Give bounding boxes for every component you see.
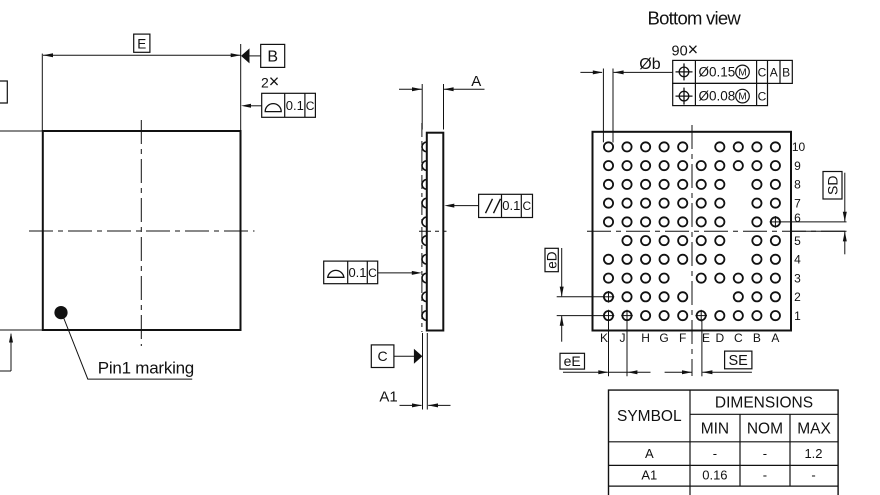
svg-text:A: A [471,73,481,90]
cut-off datum box at left edge [0,81,7,103]
svg-text:B: B [267,49,278,66]
pin1 marking leader [64,318,193,380]
parallelism tolerance frame [479,194,533,217]
parallelism arrow [444,204,478,208]
svg-text:E: E [702,331,710,345]
svg-text:Ø0.15: Ø0.15 [699,64,736,79]
svg-text:90×: 90× [672,40,699,60]
svg-text:C: C [758,90,767,104]
svg-text:0.1: 0.1 [348,265,366,280]
dimension E left arrowhead [43,53,53,57]
parallelism symbol // [486,199,501,213]
ball diameter dim line right / leader to frame [614,70,673,74]
svg-text:A: A [770,65,778,79]
top view vertical centerline [140,120,142,346]
svg-text:SD: SD [824,175,840,194]
table row line under header [609,441,839,443]
ball row 10 [604,142,613,151]
svg-text:Ø0.08: Ø0.08 [699,89,736,104]
dimension A1 seating plane extension [422,333,424,410]
svg-text:MIN: MIN [701,420,729,437]
svg-text:-: - [811,468,815,483]
svg-text:0.1: 0.1 [502,198,520,213]
M modifier row1 [736,65,750,79]
svg-text:1.2: 1.2 [804,446,822,461]
svg-text:Pin1 marking: Pin1 marking [98,359,194,378]
eD label box [545,248,558,271]
cut-off line to bottom-left corner [0,329,43,331]
dimension A1 left line+arrow [400,403,423,407]
dimension A1 right line+arrow [428,403,451,407]
ball diameter dim line left [580,70,602,74]
eE dim middle line [609,371,628,373]
svg-text:F: F [679,331,686,345]
side view package body outline [427,133,444,331]
table row line under A [609,464,839,466]
ball row 9 [604,161,613,170]
datum C leader [394,355,415,357]
svg-text:NOM: NOM [747,420,783,437]
eD dim lower line+arrow [560,316,564,342]
datum C box [371,345,394,368]
profile symbol (side view) [328,270,344,277]
eE label box [560,353,585,369]
svg-text:0.1: 0.1 [286,98,304,113]
position tolerance frame row2 [673,83,768,105]
datum B leader [250,55,261,57]
position tolerance frame row1 [673,60,793,83]
SD label box [823,172,842,200]
svg-text:-: - [763,446,767,461]
svg-text:Bottom view: Bottom view [648,7,742,28]
side view horizontal centerline [419,230,447,232]
top view package body outline [43,131,241,330]
side view solder balls (arcs) [422,142,427,152]
profile tolerance frame (top view) [262,93,316,117]
ball row 6 [604,217,613,226]
svg-text:9: 9 [794,159,801,173]
svg-text:J: J [620,331,626,345]
M modifier row2 [736,89,750,103]
table outer border [609,390,839,495]
dimension A right extension line [443,84,445,130]
SD dim upper line+arrow [843,173,847,222]
svg-text:eD: eD [544,251,559,269]
svg-text:C: C [758,65,767,79]
dimension E line [43,54,241,56]
datum B triangle [241,48,250,63]
dimension A1 body plane extension [426,333,428,410]
position symbol row2 [676,88,693,105]
ball row 3 [604,274,613,283]
svg-text:SE: SE [729,353,749,369]
datum C triangle [414,349,423,364]
svg-text:M: M [738,68,746,79]
SD dim lower line+arrow [843,231,847,254]
svg-text:10: 10 [792,140,806,154]
ball diameter right tangent extension [612,69,614,143]
svg-text:C: C [378,348,388,364]
ball K1 lower extension line [608,321,610,376]
centerline extension right [792,230,847,232]
ball K1 extension line [557,315,604,317]
dimension E right extension line [240,44,242,131]
svg-text:1: 1 [794,309,801,323]
svg-text:-: - [763,468,767,483]
dimension A left line+arrow [399,87,422,91]
svg-text:H: H [641,331,650,345]
ball K2 extension line [557,296,604,298]
table row line under DIMENSIONS [690,413,838,415]
svg-text:K: K [600,331,608,345]
svg-text:A1: A1 [641,468,657,483]
ball A6 extension line [780,221,846,223]
ball row 1 [604,311,613,320]
svg-text:4: 4 [794,253,801,267]
top view horizontal centerline [29,230,255,232]
svg-text:A1: A1 [379,389,397,406]
svg-text:A: A [771,331,779,345]
svg-text:A: A [645,446,654,461]
svg-text:5: 5 [794,234,801,248]
table column divider min/nom [739,414,741,486]
ball row 4 [604,255,613,264]
svg-text:C: C [368,266,377,280]
cut-off line to top-left corner [0,130,43,132]
profile tolerance frame (side view) [324,261,378,284]
table row line under A1 [609,485,839,487]
svg-text:2×: 2× [261,72,279,92]
svg-text:SYMBOL: SYMBOL [617,408,682,425]
svg-text:8: 8 [794,178,801,192]
svg-text:E: E [137,36,146,51]
svg-text:2: 2 [794,290,801,304]
svg-text:D: D [715,331,724,345]
position symbol row1 [676,63,693,80]
profile symbol (top view) [265,104,281,112]
svg-text:7: 7 [794,196,801,210]
ball J1 lower extension line [626,321,628,376]
dimension E label box [134,34,150,52]
ball diameter left tangent extension [602,69,604,143]
ball E1 lower extension line [701,321,703,376]
ball row 7 [604,199,613,208]
ball row 5 [622,236,631,245]
profile tolerance arrow (top view) [241,104,262,108]
table column divider symbol/min [689,390,691,495]
bottom view vertical centerline [691,125,693,376]
datum B box [261,44,285,67]
profile arrow (side view) [378,271,422,275]
SE label box [725,351,752,369]
svg-text:M: M [738,92,746,103]
dimension E right arrowhead [231,53,241,57]
svg-text:6: 6 [794,211,801,225]
SE dim right line+arrow [702,370,752,374]
svg-text:DIMENSIONS: DIMENSIONS [715,395,813,412]
pin1 marking dot [54,306,67,319]
svg-text:B: B [782,65,790,79]
svg-text:-: - [713,446,717,461]
svg-text:3: 3 [794,271,801,285]
dimension A left extension line [421,84,423,130]
side view seating plane centerline [421,123,423,332]
eE dim right line+arrow [627,370,650,374]
table column divider nom/max [789,414,791,486]
svg-text:MAX: MAX [797,420,831,437]
bottom view horizontal centerline [587,230,847,232]
svg-text:Øb: Øb [639,56,660,73]
svg-text:C: C [522,199,531,213]
bottom view package outline [593,132,792,331]
svg-text:B: B [753,331,761,345]
eE dim left line+arrow [563,370,608,374]
dimension E left extension line [41,54,43,131]
eD dim upper line+arrow [560,248,564,297]
dimension A right line+arrow [444,87,485,91]
SE dim left line+arrow [665,370,692,374]
svg-text:0.16: 0.16 [702,468,727,483]
svg-text:C: C [734,331,743,345]
cut-off dimension arrow bottom-left [0,333,13,372]
ball row 8 [604,180,613,189]
svg-text:eE: eE [564,353,581,369]
svg-text:G: G [659,331,668,345]
svg-text:C: C [306,99,315,113]
ball row 2 [604,292,613,301]
